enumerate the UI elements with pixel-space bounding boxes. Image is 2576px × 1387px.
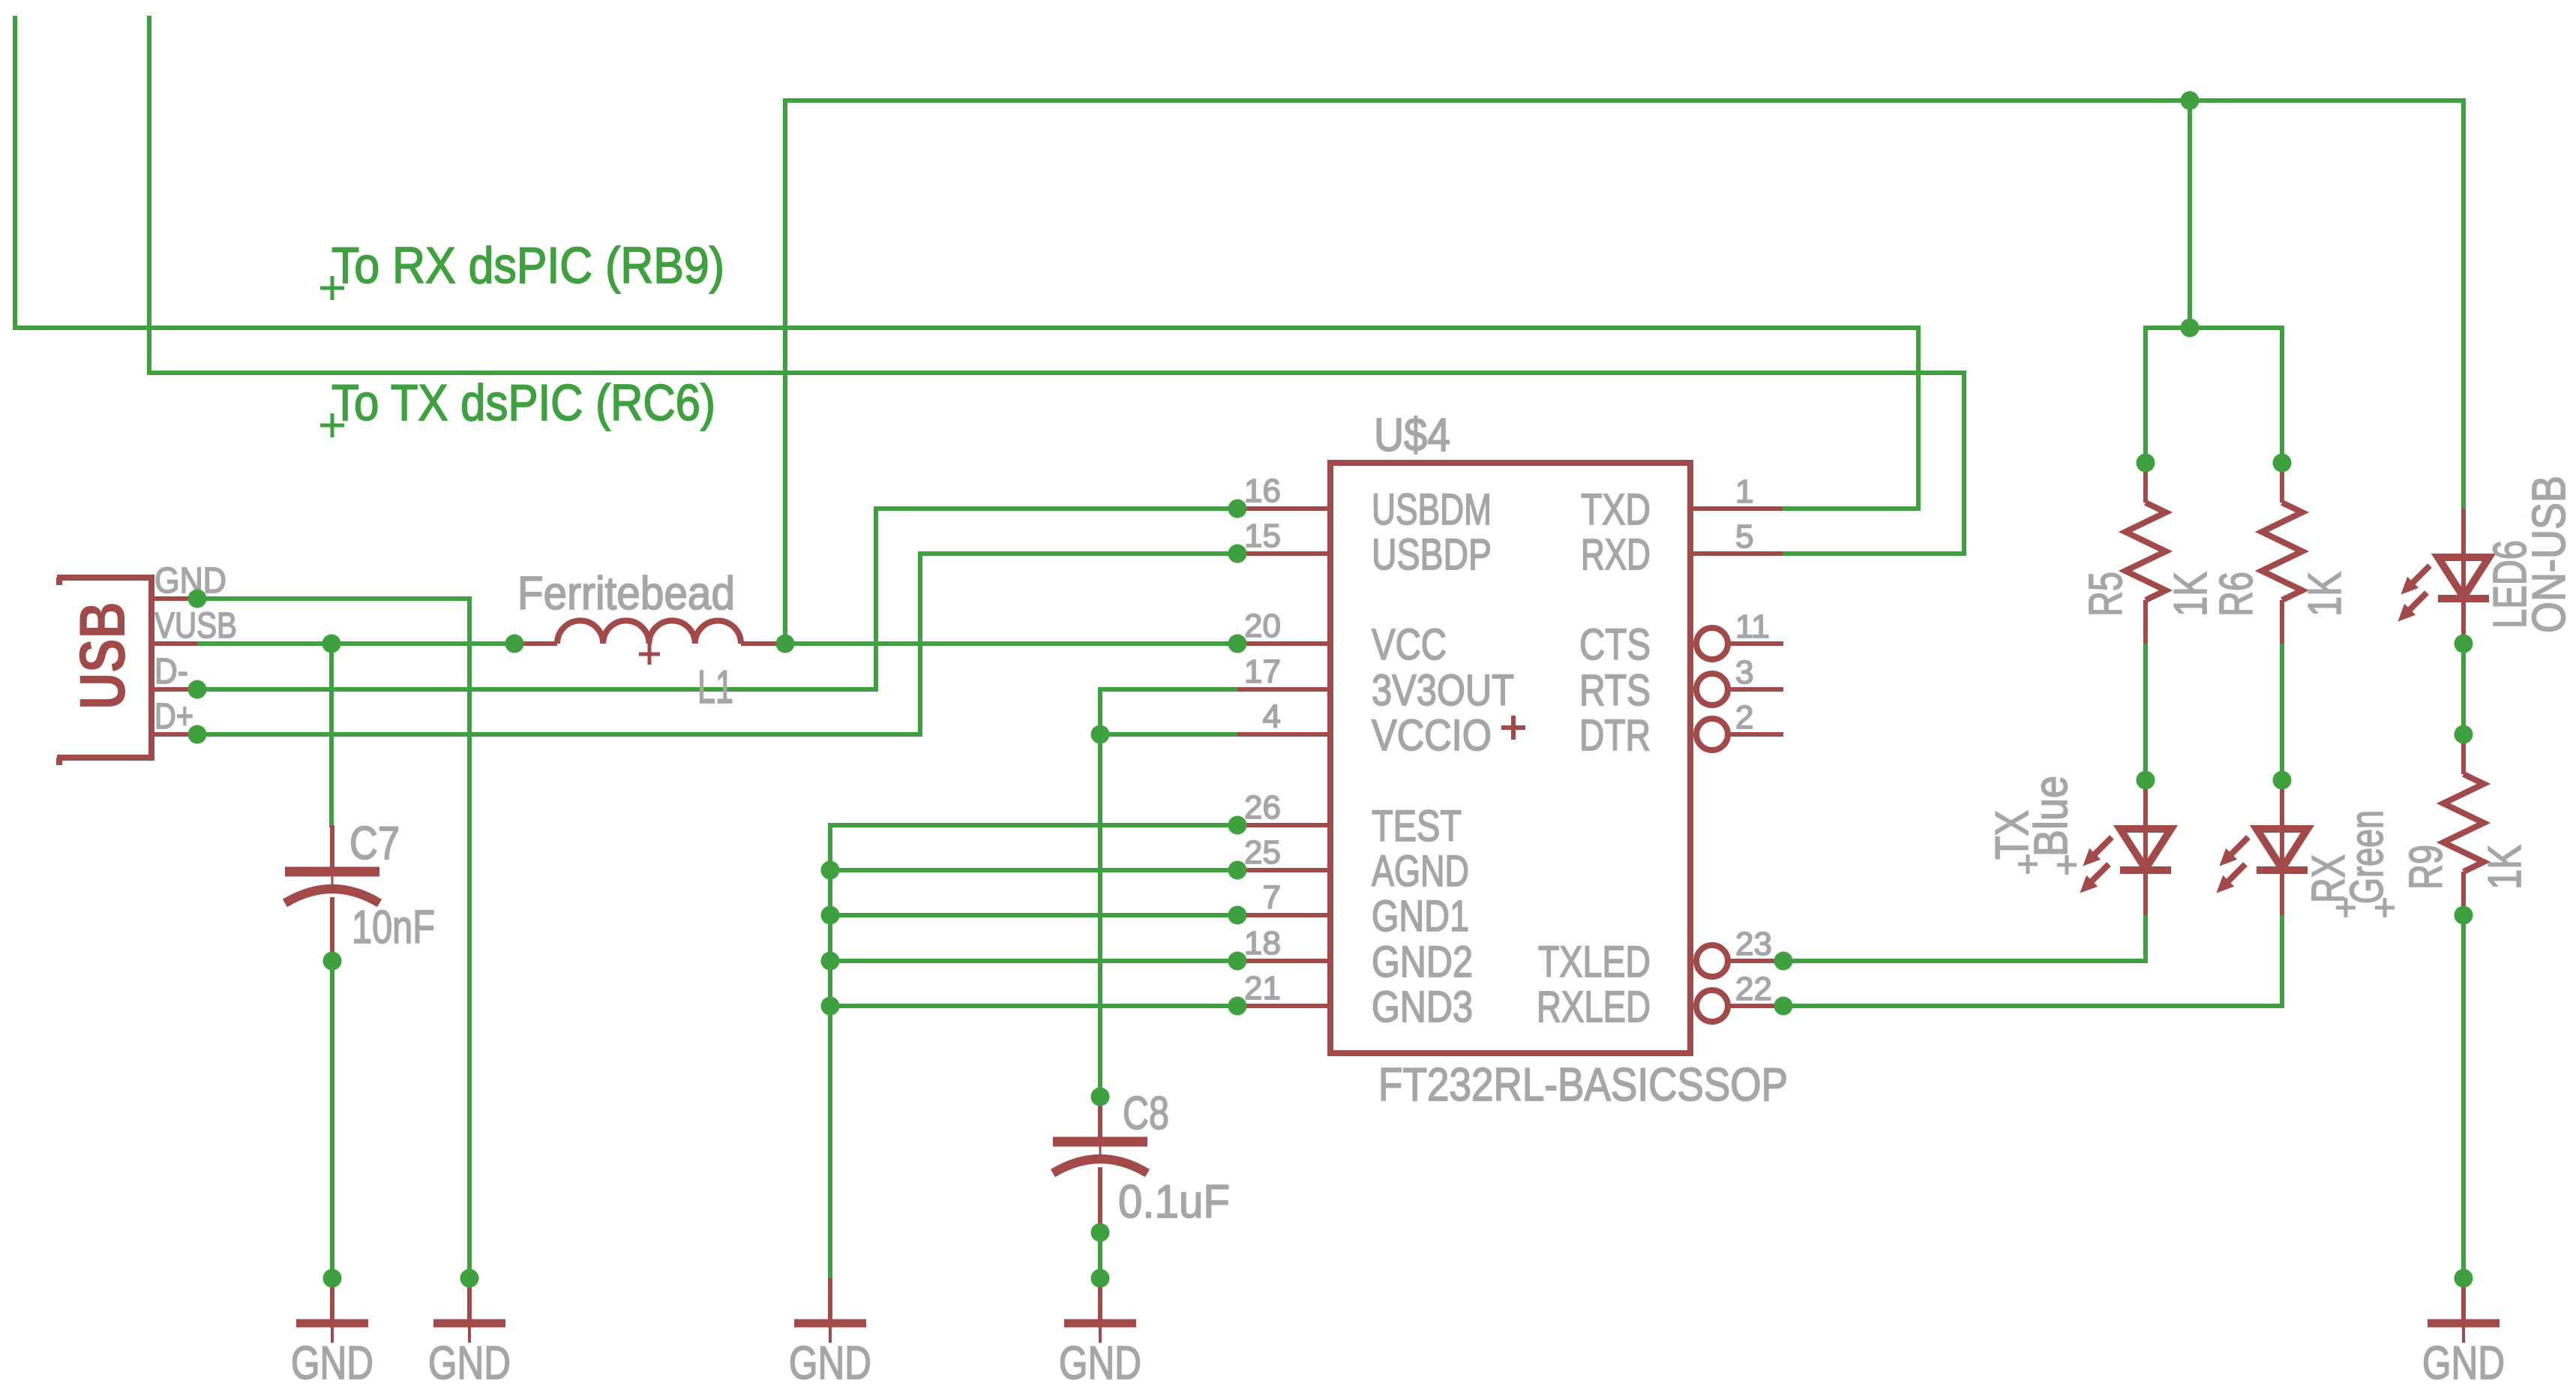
inductor L1 coil	[557, 620, 741, 644]
capacitor C7 top lead	[330, 825, 334, 872]
junction C7 bottom pin	[323, 952, 342, 971]
ground symbol GND near C8	[1064, 1278, 1136, 1343]
svg-text:VUSB: VUSB	[154, 606, 237, 646]
svg-text:1K: 1K	[2479, 845, 2531, 890]
wire net TX-dsPIC drop to RXD	[1962, 373, 1966, 554]
svg-text:21: 21	[1244, 970, 1281, 1007]
junction VBUS / C7 tee	[322, 635, 341, 653]
svg-text:16: 16	[1244, 473, 1281, 509]
junction C8 top pin	[1091, 1088, 1110, 1106]
junction GND symbol pin (USB)	[460, 1269, 479, 1288]
LED TX blue cathode bar	[2120, 866, 2171, 874]
svg-text:C7: C7	[349, 818, 400, 869]
wire net VCC resistor cross bar	[2146, 326, 2282, 330]
wire net VCC to R6	[2280, 328, 2284, 463]
svg-text:D-: D-	[154, 652, 188, 692]
junction R9 bottom pin	[2455, 906, 2473, 925]
svg-text:18: 18	[1244, 925, 1281, 962]
wire net VCC vertical from top rail	[783, 101, 787, 644]
junction R9 top pin	[2455, 725, 2473, 744]
IC U$4 body outline	[1330, 463, 1690, 1053]
ground symbol GND near C7	[296, 1278, 368, 1343]
svg-text:D+: D+	[154, 697, 193, 737]
junction L1 pin 1	[505, 635, 524, 653]
junction R5 top pin	[2137, 454, 2155, 473]
resistor R9 leads	[2461, 734, 2466, 915]
svg-text:Blue: Blue	[2026, 776, 2077, 857]
LED RX green cathode lead	[2280, 870, 2284, 915]
junction pin 26 connect	[1228, 816, 1247, 835]
IC U$4 right pin stubs CTS RTS DTR	[1728, 644, 1783, 734]
svg-text:RXLED: RXLED	[1537, 983, 1651, 1031]
capacitor C7 bottom plate arc	[285, 889, 379, 903]
LED TX origin crosses	[2018, 854, 2077, 875]
capacitor C8 origin tick	[1099, 1145, 1102, 1161]
ground symbol GND near USB	[433, 1278, 505, 1343]
capacitor C8 top plate	[1053, 1137, 1147, 1147]
LED LED6 ON-USB triangle	[2438, 557, 2489, 597]
svg-text:GND2: GND2	[1372, 938, 1473, 986]
svg-text:10nF: 10nF	[352, 902, 435, 953]
wire net C8 to GND symbol	[1098, 1232, 1102, 1278]
svg-text:GND: GND	[789, 1337, 871, 1387]
wire net RXLED to pin 22	[1783, 1004, 2282, 1008]
junction L1 pin 2 tee	[776, 635, 795, 653]
svg-text:VCC: VCC	[1372, 620, 1447, 669]
junction USB GND pin	[188, 590, 207, 608]
svg-text:3: 3	[1735, 654, 1753, 691]
wire net D- to USBDM pin 16	[876, 506, 1237, 511]
wire net VBUS branch to C7	[329, 644, 334, 825]
svg-text:TEST: TEST	[1372, 802, 1462, 851]
LED LED6 ON-USB cathode lead	[2461, 599, 2466, 644]
svg-text:GND: GND	[2422, 1337, 2505, 1387]
junction pin 15 connect	[1228, 545, 1247, 563]
svg-text:GND: GND	[428, 1337, 511, 1387]
IC U$4 inverted pin circles CTS RTS DTR	[1696, 628, 1728, 659]
svg-text:20: 20	[1244, 608, 1281, 644]
svg-text:4: 4	[1263, 698, 1281, 735]
wire net 3V3OUT vertical to C8	[1098, 689, 1102, 1097]
junction pin 20 connect	[1228, 635, 1247, 653]
junction GND symbol pin (C8)	[1091, 1269, 1110, 1288]
LED TX blue anode lead	[2143, 780, 2148, 869]
svg-text:USBDM: USBDM	[1372, 485, 1492, 534]
junction USB D- pin	[188, 680, 207, 699]
svg-text:0.1uF: 0.1uF	[1118, 1176, 1230, 1228]
junction top rail tee	[2181, 92, 2200, 110]
wire net VCC top rail	[785, 98, 2464, 103]
svg-text:RXD: RXD	[1581, 530, 1651, 579]
svg-text:23: 23	[1735, 926, 1772, 962]
LED LED6 ON-USB emission arrows	[2399, 566, 2430, 620]
wire net RX-dsPIC horizontal	[15, 326, 1918, 330]
svg-text:L1: L1	[697, 662, 733, 713]
wire net TEST to pin 26	[830, 823, 1237, 827]
LED RX green cathode bar	[2257, 866, 2308, 874]
svg-text:AGND: AGND	[1372, 847, 1469, 896]
LED LED6 ON-USB cathode bar	[2438, 595, 2489, 602]
LED TX blue cathode lead	[2143, 870, 2148, 915]
svg-text:FT232RL-BASICSSOP: FT232RL-BASICSSOP	[1378, 1059, 1788, 1111]
junction pin 7 connect	[1228, 906, 1247, 925]
wire net D- horizontal	[197, 687, 876, 692]
svg-text:1K: 1K	[2299, 572, 2351, 617]
wire net TXLED vertical	[2143, 916, 2148, 961]
svg-text:1K: 1K	[2165, 572, 2217, 617]
svg-text:DTR: DTR	[1579, 711, 1651, 760]
wire net TXLED to pin 23	[1783, 959, 2146, 963]
junction R6 top pin	[2273, 454, 2292, 473]
LED RX green triangle	[2257, 829, 2308, 869]
wire net D- vertical	[874, 509, 878, 689]
svg-text:11: 11	[1735, 608, 1770, 645]
svg-text:To RX dsPIC (RB9): To RX dsPIC (RB9)	[331, 237, 724, 294]
resistor R6 leads	[2280, 463, 2284, 644]
svg-text:GND: GND	[291, 1337, 373, 1387]
junction GND symbol pin (C7)	[323, 1269, 342, 1288]
junction pin 18 connect	[1228, 952, 1247, 971]
capacitor C8 bottom plate arc	[1053, 1159, 1147, 1173]
ground symbol GND near AGND trunk	[794, 1278, 866, 1343]
junction pin 23 connect	[1774, 952, 1793, 971]
ground symbol GND near R9	[2428, 1278, 2500, 1343]
net label origin cross RX	[320, 276, 344, 300]
junction LED6 cathode	[2455, 635, 2473, 653]
junction AGND trunk tee 3	[821, 952, 840, 971]
LED RX green anode lead	[2280, 780, 2284, 869]
svg-text:ON-USB: ON-USB	[2524, 476, 2575, 633]
svg-text:2: 2	[1735, 699, 1753, 736]
wire net LED6 cathode to R9	[2461, 644, 2466, 734]
LED TX blue emission arrows	[2081, 837, 2112, 892]
wire net GND2 to pin 18	[830, 959, 1237, 963]
LED RX origin crosses	[2336, 898, 2395, 917]
wire net GND3 to pin 21	[830, 1004, 1237, 1008]
IC U$4 left pin stubs	[1237, 509, 1327, 1006]
junction AGND trunk tee 4	[821, 997, 840, 1016]
svg-text:Ferritebead: Ferritebead	[517, 568, 735, 620]
junction pin 22 connect	[1774, 997, 1793, 1016]
svg-text:R9: R9	[2401, 845, 2452, 890]
svg-text:5: 5	[1735, 518, 1753, 555]
junction pin 21 connect	[1228, 997, 1247, 1016]
capacitor C8 bottom lead	[1098, 1167, 1102, 1232]
wire net 3V3OUT to pin 17	[1100, 687, 1237, 692]
wire net D+ vertical	[918, 554, 922, 734]
wire net R6 to RX LED	[2280, 644, 2284, 780]
IC U$4 VCCIO origin cross	[1501, 716, 1525, 740]
capacitor C8 top lead	[1098, 1097, 1102, 1142]
wire net VCC to pin 20	[785, 641, 1237, 646]
wire net GND from USB	[197, 596, 469, 601]
svg-text:GND1: GND1	[1372, 892, 1469, 941]
svg-text:1: 1	[1735, 473, 1753, 510]
svg-text:25: 25	[1244, 834, 1281, 871]
svg-text:TXD: TXD	[1581, 485, 1651, 534]
resistor R6 zigzag	[2262, 503, 2302, 600]
wire net R9 to GND symbol	[2461, 915, 2466, 1278]
capacitor C7 bottom lead	[330, 897, 334, 961]
svg-text:VCCIO: VCCIO	[1372, 711, 1492, 760]
wire net VCC to LED6	[2461, 101, 2466, 509]
svg-text:To TX dsPIC (RC6): To TX dsPIC (RC6)	[331, 374, 715, 431]
svg-text:Green: Green	[2341, 810, 2393, 904]
capacitor C7 top plate	[285, 867, 379, 877]
net label origin cross TX	[320, 413, 344, 437]
svg-text:3V3OUT: 3V3OUT	[1372, 666, 1514, 715]
LED TX blue triangle	[2120, 829, 2171, 869]
wire net GND1 to pin 7	[830, 913, 1237, 917]
junction RX LED anode	[2273, 771, 2292, 790]
svg-text:USBDP: USBDP	[1372, 530, 1492, 579]
resistor R5 zigzag	[2125, 503, 2166, 600]
resistor R9 zigzag	[2443, 774, 2484, 872]
svg-text:22: 22	[1735, 971, 1772, 1007]
inductor L1 origin cross	[639, 644, 660, 665]
junction AGND trunk tee 2	[821, 906, 840, 925]
junction pin 16 connect	[1228, 500, 1247, 518]
wire net TX-dsPIC horizontal	[149, 371, 1964, 375]
svg-text:R6: R6	[2211, 572, 2263, 617]
wire net TXD pin 1 segment	[1783, 506, 1918, 511]
LED LED6 ON-USB anode lead	[2461, 509, 2466, 597]
wire net RX-dsPIC vertical left	[13, 18, 17, 328]
svg-text:GND3: GND3	[1372, 983, 1473, 1031]
wire net VCC to R5	[2143, 328, 2148, 463]
junction pin 4 tee	[1091, 725, 1110, 744]
junction resistor bar tee	[2181, 319, 2200, 338]
IC U$4 inverted pin circles TXLED RXLED	[1696, 945, 1728, 977]
wire net VCCIO to pin 4	[1100, 732, 1237, 737]
LED RX green emission arrows	[2218, 837, 2248, 892]
wire net RX-dsPIC drop to TXD	[1916, 328, 1921, 509]
junction TX LED anode	[2137, 771, 2155, 790]
connector USB pin stubs	[151, 599, 197, 734]
svg-text:U$4: U$4	[1374, 410, 1450, 461]
junction pin 25 connect	[1228, 861, 1247, 880]
wire net VBUS from USB to L1	[197, 641, 514, 646]
wire net AGND to pin 25	[830, 868, 1237, 872]
svg-text:15: 15	[1244, 518, 1281, 554]
capacitor C7 origin tick	[331, 875, 334, 891]
wire net D+ to USBDP pin 15	[920, 551, 1237, 556]
IC U$4 right pin stubs TXLED RXLED	[1728, 961, 1783, 1006]
svg-text:7: 7	[1263, 879, 1281, 916]
wire net GND vertical to GND symbol	[467, 599, 472, 1278]
inductor L1 ferrite bead leads	[514, 641, 785, 646]
junction GND symbol pin (R9)	[2455, 1269, 2473, 1288]
svg-text:17: 17	[1244, 653, 1281, 690]
wire net C7 to GND symbol	[330, 961, 334, 1278]
resistor R5 leads	[2143, 463, 2148, 644]
wire net VCC branch to resistors	[2188, 101, 2192, 328]
wire net RXD pin 5 segment	[1783, 551, 1964, 556]
junction C8 bottom pin	[1091, 1223, 1110, 1242]
wire net D+ horizontal	[197, 732, 920, 737]
wire net RXLED vertical	[2280, 916, 2284, 1006]
svg-text:CTS: CTS	[1579, 620, 1651, 669]
junction AGND trunk tee 1	[821, 861, 840, 880]
svg-text:R5: R5	[2080, 572, 2132, 617]
svg-text:RTS: RTS	[1579, 666, 1651, 715]
connector USB bracket	[57, 575, 151, 765]
svg-text:C8: C8	[1123, 1088, 1169, 1139]
svg-text:TXLED: TXLED	[1538, 938, 1651, 986]
junction USB D+ pin	[188, 725, 207, 744]
wire net R5 to TX LED	[2143, 644, 2148, 780]
wire net TX-dsPIC vertical left	[147, 18, 151, 373]
IC U$4 right pin stubs 1 and 5	[1693, 509, 1783, 554]
wire net AGND trunk vertical	[828, 825, 832, 1278]
svg-text:USB: USB	[67, 602, 139, 710]
svg-text:GND: GND	[1059, 1337, 1141, 1387]
svg-text:26: 26	[1244, 789, 1281, 826]
